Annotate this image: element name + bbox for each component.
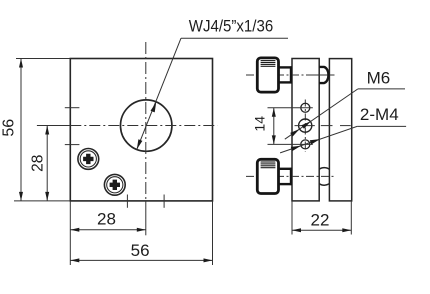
hole vertical centerline [304, 100, 306, 152]
dim 56 bottom line [70, 259, 212, 261]
threaded hole circle [121, 100, 172, 151]
dim 28 bottom line [70, 229, 146, 231]
M6 leader arrow outer [290, 129, 299, 137]
M6 leader arrow inner [301, 121, 310, 129]
left edge tick upper [65, 107, 80, 109]
bottom knob centerline [246, 175, 335, 177]
centerline extension below [145, 201, 147, 235]
M6 leader [285, 89, 358, 139]
top screw tip centerline tick [314, 74, 335, 76]
dim 56 bottom extensions [69, 201, 71, 265]
svg-text:M6: M6 [367, 69, 391, 88]
dim 28 left line [46, 126, 48, 201]
top knob knurl lines [261, 61, 276, 67]
top knob centerline [246, 74, 335, 76]
dim 56 left extension bottom [14, 200, 70, 202]
dim 56 left line [20, 59, 22, 201]
svg-text:2-M4: 2-M4 [360, 105, 399, 124]
side view clamp plate [329, 59, 351, 201]
vertical centerline front [145, 42, 147, 201]
svg-text:56: 56 [1, 119, 18, 137]
2-M4 leader [280, 126, 357, 152]
front view plate outline [70, 59, 212, 201]
ball plunger between plates [316, 168, 334, 186]
screw 1 [78, 149, 99, 170]
top knob head [257, 58, 278, 92]
svg-text:28: 28 [30, 155, 47, 172]
bottom edge tick left [126, 195, 128, 208]
side view main plate [292, 59, 319, 201]
M6 horizontal centerline [295, 125, 315, 127]
top M4 crosshair / 14 extension [268, 107, 313, 109]
leader arrow lower [137, 139, 143, 149]
svg-text:28: 28 [97, 209, 116, 228]
left edge tick lower [65, 144, 80, 146]
bottom knob head [257, 159, 278, 193]
leader arrow upper [151, 102, 157, 112]
dim 14 line [273, 108, 275, 145]
svg-text:14: 14 [252, 116, 268, 132]
bottom M4 crosshair / 14 extension [268, 143, 313, 145]
dim 56 left extension top [16, 58, 70, 60]
bottom knob shaft [279, 168, 293, 170]
bottom knob knurl lines [261, 162, 276, 168]
M6 underline [358, 88, 405, 90]
dim 22 line [292, 229, 351, 231]
bottom edge tick right [163, 195, 165, 208]
label underline [181, 37, 288, 39]
svg-text:WJ4/5”x1/36: WJ4/5”x1/36 [189, 17, 273, 36]
leader line to threaded hole [137, 38, 181, 149]
dim 22 extensions [291, 201, 293, 235]
top M4 hole [301, 103, 310, 112]
2-M4 underline [357, 125, 406, 127]
top screw tip dome [319, 67, 328, 83]
horizontal centerline front [37, 125, 70, 127]
svg-text:22: 22 [311, 211, 330, 230]
2-M4 leader arrow inner [310, 139, 320, 144]
M6 hole [299, 119, 312, 132]
screw 2 [104, 174, 125, 195]
svg-text:56: 56 [131, 241, 150, 260]
2-M4 leader arrow outer [291, 146, 301, 151]
bottom M4 hole [301, 140, 310, 149]
top knob shaft [279, 66, 293, 68]
